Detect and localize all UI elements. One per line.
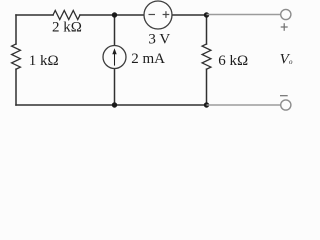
svg-text:o: o (289, 58, 293, 66)
svg-text:6 kΩ: 6 kΩ (218, 53, 248, 69)
svg-text:3 V: 3 V (148, 32, 170, 48)
svg-text:2 kΩ: 2 kΩ (52, 19, 82, 35)
svg-text:1 kΩ: 1 kΩ (29, 53, 59, 69)
svg-text:2 mA: 2 mA (131, 51, 165, 67)
